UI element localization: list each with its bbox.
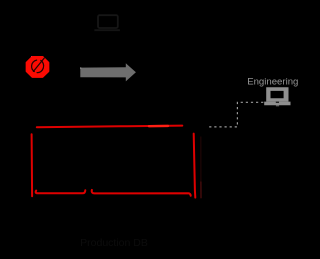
top edge: [37, 126, 183, 128]
right edge ghost stroke: [200, 137, 202, 182]
red box (sketchy rectangle): [32, 126, 201, 198]
dashed connector: [209, 102, 263, 127]
cursor dot (magenta): [31, 56, 33, 58]
arrow white speck: [80, 68, 81, 69]
laptop icon (Engineering, gray): [264, 87, 290, 106]
left edge: [31, 134, 33, 196]
top edge second pass: [149, 125, 168, 128]
bottom edge left part: [36, 190, 86, 193]
no-entry glyph inside octagon: [32, 58, 45, 73]
right edge: [194, 134, 196, 198]
svg-text:Engineering: Engineering: [247, 76, 298, 87]
stop octagon: [26, 57, 48, 77]
laptop icon (client, dark): [94, 15, 120, 31]
svg-text:Production DB: Production DB: [80, 237, 148, 249]
bottom edge right part: [92, 190, 191, 196]
arrow (gray, right-pointing): [80, 63, 136, 81]
